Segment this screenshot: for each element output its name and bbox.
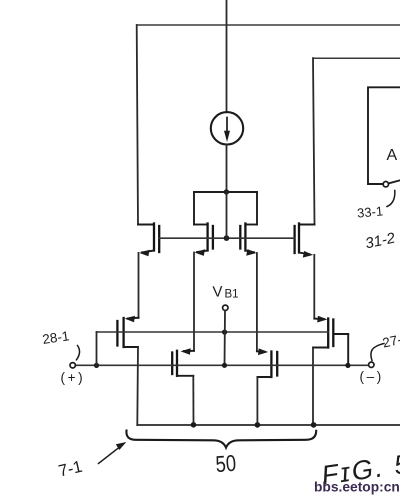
- wire: top supply rail: [137, 24, 400, 26]
- wire: current source to mirror bar: [226, 145, 228, 193]
- svg-text:A: A: [387, 147, 398, 164]
- wire: M4 source to M6 drain: [313, 255, 315, 319]
- wire: plus input up to M5 gate: [96, 332, 98, 365]
- junction dot: body line / VB1: [222, 330, 227, 335]
- label VB1: [212, 283, 238, 300]
- svg-text:B1: B1: [225, 289, 239, 301]
- callout curve: 27-2 to terminal: [371, 344, 384, 361]
- terminal 33-1 on block A: [383, 182, 388, 187]
- wire: M3 source to M8 drain: [256, 253, 258, 351]
- junction dot: bar / center line: [224, 189, 229, 194]
- junction dot: minus branch: [345, 363, 350, 368]
- terminal 27-2 (-) input: [369, 362, 374, 367]
- junction dot: VB1 on input line: [222, 363, 227, 368]
- wire: M2 source to M7 drain: [193, 253, 195, 351]
- junction dot: M6 source on rail: [311, 422, 317, 428]
- wire: bar right drop: [256, 192, 258, 225]
- wire: VB1 down to input line: [224, 311, 227, 366]
- net: differential input line: [75, 364, 368, 366]
- wire: M7 source down to bottom rail: [192, 376, 194, 425]
- junction dot: M7 source on rail: [191, 422, 197, 428]
- wire: M6 source down to bottom rail: [312, 348, 314, 426]
- net: common gate line of M1-M4: [159, 237, 294, 239]
- wire: left supply drop to M1 drain: [137, 25, 138, 225]
- wire: second supply rail (to output block): [313, 57, 400, 59]
- svg-text:bbs.eetop:cn: bbs.eetop:cn: [314, 480, 400, 495]
- transistor M1 (outer left, top row): [138, 224, 159, 257]
- wire: M5 source down to bottom rail: [136, 347, 139, 425]
- wire: bottom common rail: [137, 424, 400, 426]
- junction dot: gate line / center line: [224, 235, 230, 241]
- wire: bar left drop: [193, 192, 195, 225]
- transistor M8 (right, bottom row): [257, 348, 277, 377]
- svg-text:50: 50: [215, 450, 237, 477]
- svg-text:(+): (+): [61, 370, 86, 385]
- transistor M4 (outer right, top row): [295, 224, 315, 258]
- callout curve: 28-1 to terminal: [77, 346, 80, 360]
- transistor M3 (inner right, top row): [240, 224, 257, 256]
- terminal VB1: [223, 305, 228, 310]
- terminal 28-1 (+) input: [70, 363, 75, 368]
- svg-text:(–): (–): [360, 369, 384, 384]
- node: common drain bar of M2/M3: [194, 191, 257, 193]
- wire: right supply drop to M4 drain: [313, 58, 315, 224]
- svg-text:V: V: [212, 283, 223, 300]
- junction dot: plus branch: [94, 363, 99, 368]
- block 31-2: output block box with node A: [368, 87, 400, 184]
- brace: group 50: [126, 431, 316, 448]
- wire: M8 source down to bottom rail: [256, 377, 258, 425]
- leader arrow: 7-1 to brace: [99, 445, 123, 464]
- svg-text:33-1: 33-1: [356, 203, 383, 220]
- net: VB1 body line to M5/M6: [97, 331, 329, 333]
- transistor M5 (left, middle row): [117, 316, 138, 347]
- callout curve: 33-1 to terminal: [387, 191, 395, 207]
- junction dot: M8 source on rail: [255, 422, 261, 428]
- wire: M1 source to M5 drain: [138, 253, 140, 318]
- transistor M7 (left, bottom row): [172, 348, 194, 376]
- current source I1: [211, 112, 243, 144]
- transistor M2 (inner left, top row): [194, 224, 213, 256]
- wire: center line bar to gate line: [226, 192, 228, 238]
- wire: center bias feed from top edge: [226, 0, 228, 112]
- transistor M6 (right, middle row): [313, 316, 348, 366]
